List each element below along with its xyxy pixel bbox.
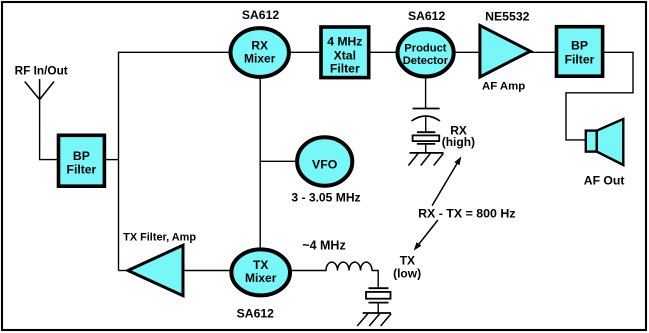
svg-text:Mixer: Mixer	[244, 51, 276, 65]
wire product detector down to cap	[425, 77, 427, 109]
svg-text:RX - TX = 800 Hz: RX - TX = 800 Hz	[418, 207, 515, 221]
wire trunk vertical	[118, 52, 120, 271]
svg-text:Mixer: Mixer	[245, 271, 277, 285]
svg-text:VFO: VFO	[312, 157, 338, 171]
wire RX mixer to xtal filter	[288, 51, 320, 53]
svg-text:TX: TX	[253, 258, 268, 272]
wire trunk to TX amp	[119, 270, 129, 272]
ground (TX)	[363, 312, 391, 314]
op-amp TX Filter Amp	[128, 245, 183, 296]
svg-text:SA612: SA612	[237, 307, 274, 321]
crystal RX (high)	[417, 131, 435, 133]
block BP Filter (right)	[557, 27, 603, 76]
arrow RX-TX upper	[432, 161, 458, 206]
wire TX amp to TX mixer	[183, 270, 233, 272]
arrow RX-TX lower	[417, 220, 438, 247]
svg-text:(low): (low)	[393, 266, 421, 280]
wire TX mixer to inductor	[288, 270, 327, 272]
block RX Mixer	[231, 28, 289, 77]
wire xtal filter to product detector	[370, 51, 398, 53]
op-amp AF Amp	[480, 25, 530, 77]
wire inductor to crystal	[372, 271, 379, 289]
crystal TX (low)	[369, 287, 389, 289]
svg-text:SA612: SA612	[242, 8, 279, 22]
wire AF amp to BP filter	[530, 51, 557, 53]
oscillator VFO	[297, 137, 352, 186]
svg-text:BP: BP	[571, 38, 588, 52]
svg-text:Filter: Filter	[330, 62, 360, 76]
block TX Mixer	[231, 249, 290, 295]
svg-text:Filter: Filter	[565, 52, 595, 66]
wire crystal to ground	[377, 303, 379, 313]
svg-text:(high): (high)	[442, 135, 475, 149]
antenna	[25, 79, 54, 100]
wire product detector to AF amp	[452, 51, 480, 53]
wire trunk to RX mixer	[119, 51, 233, 53]
wire crystal to ground	[425, 144, 427, 153]
svg-text:SA612: SA612	[408, 9, 445, 23]
block BP Filter (left)	[59, 135, 105, 186]
svg-text:~4 MHz: ~4 MHz	[302, 238, 345, 252]
ground (RX)	[410, 152, 444, 154]
svg-text:TX Filter, Amp: TX Filter, Amp	[123, 232, 196, 244]
svg-text:Xtal: Xtal	[334, 48, 356, 62]
wire BP filter output to speaker	[566, 52, 633, 140]
wire cap to crystal	[425, 117, 427, 132]
svg-text:3 - 3.05 MHz: 3 - 3.05 MHz	[291, 191, 360, 205]
svg-text:AF Out: AF Out	[584, 173, 625, 187]
svg-text:RX: RX	[251, 38, 268, 52]
svg-text:NE5532: NE5532	[485, 9, 530, 23]
svg-text:4 MHz: 4 MHz	[327, 35, 362, 49]
inductor L1	[326, 262, 372, 270]
block Product Detector	[398, 29, 454, 76]
svg-text:AF Amp: AF Amp	[482, 81, 525, 93]
wire VFO branch	[260, 160, 297, 162]
speaker AF Out	[586, 131, 597, 152]
block 4 MHz Xtal Filter	[321, 27, 369, 78]
svg-text:Detector: Detector	[403, 55, 449, 67]
capacitor (RX trimmer)	[413, 108, 440, 110]
wire BP filter to trunk	[104, 159, 119, 161]
wire antenna to BP filter	[39, 159, 59, 161]
svg-text:BP: BP	[73, 149, 90, 163]
svg-text:Product: Product	[404, 42, 447, 54]
wire antenna stem	[39, 99, 41, 160]
svg-text:Filter: Filter	[67, 162, 97, 176]
svg-text:RF In/Out: RF In/Out	[15, 63, 68, 77]
wire RX mixer to TX mixer vertical	[259, 78, 261, 250]
